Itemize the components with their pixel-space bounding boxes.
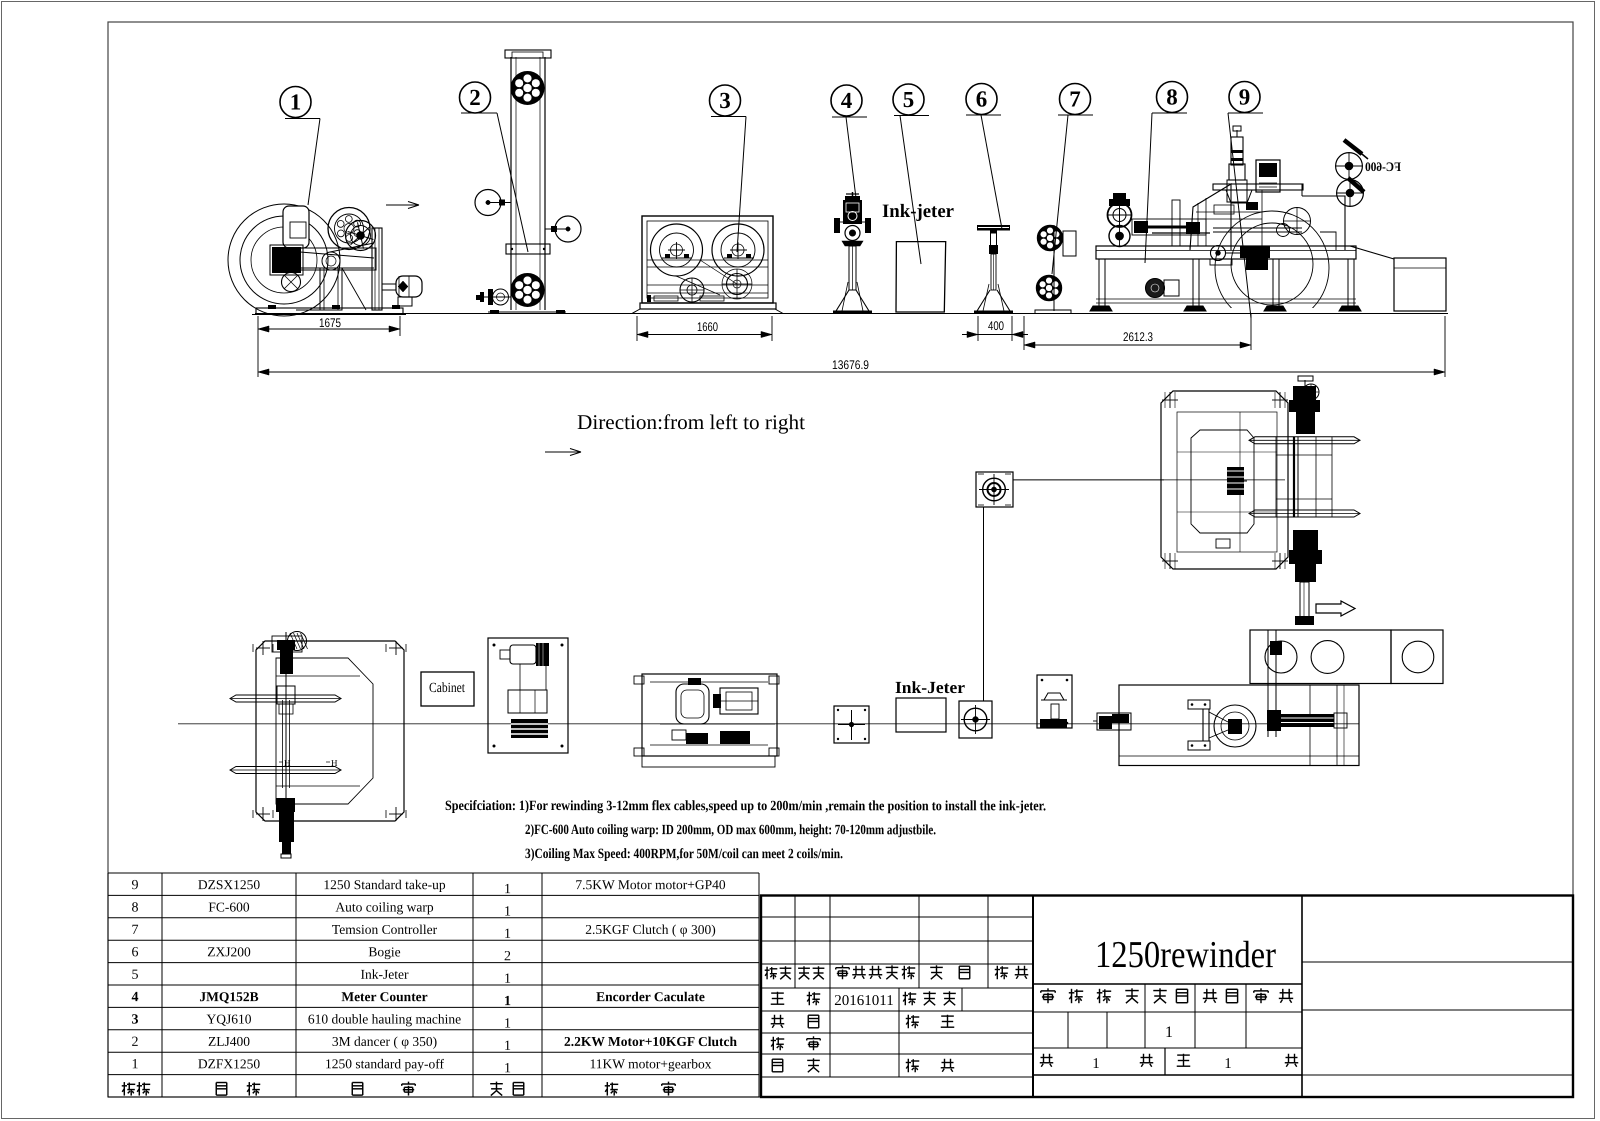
svg-text:1660: 1660 bbox=[697, 320, 718, 334]
leader line 1 bbox=[285, 118, 320, 120]
plan view cabinet bbox=[488, 638, 568, 753]
svg-text:1: 1 bbox=[290, 89, 302, 114]
leader line 5 bbox=[894, 115, 929, 117]
plan view pulley stand lower bbox=[959, 701, 992, 738]
svg-text:Meter Counter: Meter Counter bbox=[341, 989, 427, 1004]
plan view pay-off bbox=[230, 632, 406, 859]
svg-text:2612.3: 2612.3 bbox=[1123, 330, 1153, 344]
svg-text:Bogie: Bogie bbox=[368, 944, 400, 959]
BOM parts table bbox=[108, 873, 759, 1097]
wire down from upper pulley to lower pulley bbox=[983, 507, 985, 701]
svg-text:13676.9: 13676.9 bbox=[832, 358, 869, 372]
svg-text:YQJ610: YQJ610 bbox=[206, 1012, 251, 1027]
svg-text:6: 6 bbox=[131, 945, 138, 960]
svg-text:1: 1 bbox=[1092, 1056, 1100, 1072]
title block header texts bbox=[766, 967, 768, 980]
balloon label 1 bbox=[280, 87, 311, 118]
BOM header row bbox=[123, 1082, 125, 1096]
svg-text:FC-600: FC-600 bbox=[1365, 159, 1401, 174]
svg-text:1: 1 bbox=[1165, 1024, 1173, 1041]
leader line 4 bbox=[832, 116, 867, 118]
machine 6 bogie stand ZXJ200 bbox=[974, 225, 1013, 313]
svg-text:20161011: 20161011 bbox=[834, 993, 893, 1009]
Cabinet label box bbox=[421, 672, 474, 706]
machine 5 ink-jeter box bbox=[896, 242, 946, 312]
svg-text:5: 5 bbox=[903, 87, 915, 112]
balloon label 5 bbox=[893, 84, 924, 115]
svg-text:Ink-jeter: Ink-jeter bbox=[882, 201, 955, 222]
dimension 400 bbox=[977, 316, 979, 341]
svg-text:1: 1 bbox=[504, 994, 511, 1009]
svg-text:3M dancer ( φ 350): 3M dancer ( φ 350) bbox=[332, 1034, 437, 1049]
svg-text:1: 1 bbox=[504, 1017, 511, 1032]
svg-text:3: 3 bbox=[131, 1013, 138, 1028]
svg-text:H: H bbox=[284, 758, 291, 768]
svg-text:2: 2 bbox=[469, 85, 481, 110]
svg-text:4: 4 bbox=[841, 88, 853, 113]
svg-text:Cabinet: Cabinet bbox=[429, 681, 465, 696]
svg-text:8: 8 bbox=[1166, 84, 1178, 109]
balloon label 7 bbox=[1060, 84, 1091, 115]
balloon label 9 bbox=[1229, 82, 1260, 113]
svg-text:Specifciation: 1)For rewinding: Specifciation: 1)For rewinding 3-12mm fl… bbox=[445, 798, 1046, 814]
leader line 2 bbox=[461, 112, 497, 114]
svg-text:1675: 1675 bbox=[319, 316, 341, 330]
svg-text:11KW motor+gearbox: 11KW motor+gearbox bbox=[590, 1056, 712, 1071]
balloon label 8 bbox=[1157, 82, 1188, 113]
balloon label 2 bbox=[460, 82, 491, 113]
svg-text:7: 7 bbox=[131, 923, 138, 938]
machine 4 meter counter JMQ152B bbox=[833, 192, 872, 313]
svg-text:7.5KW Motor motor+GP40: 7.5KW Motor motor+GP40 bbox=[575, 877, 725, 892]
plan view hauling machine bbox=[634, 674, 779, 767]
svg-text:FC-600: FC-600 bbox=[208, 900, 250, 915]
svg-text:7: 7 bbox=[1069, 86, 1081, 111]
svg-text:JMQ152B: JMQ152B bbox=[199, 989, 258, 1004]
machine 2 dancer tower ZLJ400 bbox=[475, 50, 581, 314]
svg-text:Direction:from left to right: Direction:from left to right bbox=[577, 410, 805, 434]
svg-text:2)FC-600 Auto coiling warp: ID: 2)FC-600 Auto coiling warp: ID 200mm, OD… bbox=[525, 822, 936, 838]
page row bbox=[1043, 1054, 1045, 1063]
svg-text:1: 1 bbox=[504, 905, 511, 920]
svg-text:Ink-Jeter: Ink-Jeter bbox=[895, 678, 965, 697]
flow arrow after machine 1 bbox=[386, 204, 419, 206]
svg-text:3)Coiling Max Speed: 400RPM,fo: 3)Coiling Max Speed: 400RPM,for 50M/coil… bbox=[525, 846, 843, 862]
ground line elevation bbox=[255, 313, 1448, 315]
hollow direction arrow plan bbox=[1316, 601, 1355, 616]
leader line 8 bbox=[1152, 112, 1187, 114]
dimension 2612.3 bbox=[1023, 316, 1025, 350]
audit row bbox=[772, 1037, 774, 1051]
svg-text:1250 standard pay-off: 1250 standard pay-off bbox=[325, 1056, 444, 1071]
direction arrow bbox=[545, 451, 581, 453]
machine 7 tension controller bbox=[1035, 225, 1076, 314]
check row bbox=[774, 1015, 776, 1024]
svg-text:400: 400 bbox=[988, 319, 1004, 333]
svg-text:1: 1 bbox=[504, 1039, 511, 1054]
plan view small trolley bbox=[1093, 713, 1131, 730]
plan view ink-jeter box bbox=[896, 698, 946, 732]
svg-text:1: 1 bbox=[504, 1061, 511, 1076]
svg-text:2: 2 bbox=[504, 949, 511, 964]
process row bbox=[772, 1058, 783, 1060]
svg-text:9: 9 bbox=[1239, 84, 1251, 109]
plan view rewinder machine lower bbox=[1119, 685, 1359, 766]
plan centerline wire bbox=[178, 723, 1359, 725]
svg-text:2: 2 bbox=[131, 1035, 138, 1050]
svg-text:3: 3 bbox=[719, 88, 731, 113]
svg-text:1250 Standard take-up: 1250 Standard take-up bbox=[323, 877, 445, 892]
plan view pulley stand upper bbox=[976, 472, 1013, 507]
svg-text:1: 1 bbox=[504, 927, 511, 942]
svg-text:5: 5 bbox=[131, 968, 138, 983]
machine 8 auto coiling warp FC-600 and machine 9 take-up DZSX1250 bbox=[1090, 126, 1446, 325]
svg-text:1: 1 bbox=[504, 972, 511, 987]
svg-text:8: 8 bbox=[131, 901, 138, 916]
svg-text:Auto coiling warp: Auto coiling warp bbox=[335, 900, 433, 915]
svg-text:610 double hauling machine: 610 double hauling machine bbox=[308, 1011, 461, 1026]
leader line 6 bbox=[966, 114, 1001, 116]
svg-text:ZXJ200: ZXJ200 bbox=[207, 944, 251, 959]
svg-text:1250rewinder: 1250rewinder bbox=[1095, 934, 1276, 976]
svg-text:1: 1 bbox=[1224, 1056, 1232, 1072]
svg-text:Encorder Caculate: Encorder Caculate bbox=[596, 989, 705, 1004]
machine 3 double hauling machine YQJ610 bbox=[632, 216, 783, 314]
balloon label 6 bbox=[966, 84, 997, 115]
leader line 7 bbox=[1058, 114, 1093, 116]
svg-text:2.2KW Motor+10KGF Clutch: 2.2KW Motor+10KGF Clutch bbox=[564, 1034, 738, 1049]
plan view meter counter bbox=[834, 706, 869, 743]
dimension 1660 bbox=[636, 316, 638, 341]
plan view outfeed boxes with coils bbox=[1250, 630, 1443, 737]
title block bbox=[761, 896, 1573, 1098]
svg-text:H: H bbox=[331, 758, 338, 768]
svg-text:9: 9 bbox=[131, 878, 138, 893]
svg-text:1: 1 bbox=[131, 1057, 138, 1072]
dimension 1675 bbox=[257, 316, 259, 336]
plan view bogie bbox=[1037, 675, 1072, 728]
svg-text:DZSX1250: DZSX1250 bbox=[198, 877, 261, 892]
leader line 9 bbox=[1228, 112, 1263, 114]
balloon label 3 bbox=[710, 85, 741, 116]
design row bbox=[771, 992, 784, 994]
svg-text:DZFX1250: DZFX1250 bbox=[198, 1056, 261, 1071]
svg-text:6: 6 bbox=[976, 86, 988, 111]
svg-text:ZLJ400: ZLJ400 bbox=[208, 1034, 250, 1049]
plan view take-up machine upper bbox=[1161, 376, 1360, 625]
drawing mark row bbox=[1041, 990, 1055, 992]
svg-text:Ink-Jeter: Ink-Jeter bbox=[361, 967, 409, 982]
balloon label 4 bbox=[831, 85, 862, 116]
dimension 13676.9 overall bbox=[257, 336, 259, 377]
svg-text:4: 4 bbox=[131, 990, 138, 1005]
svg-text:Temsion Controller: Temsion Controller bbox=[332, 922, 438, 937]
machine 1 pay-off DZFX1250 bbox=[228, 204, 422, 316]
svg-text:2.5KGF Clutch ( φ 300): 2.5KGF Clutch ( φ 300) bbox=[585, 922, 715, 937]
wire from upper pulley to take-up plan bbox=[1013, 479, 1164, 481]
svg-text:1: 1 bbox=[504, 882, 511, 897]
leader line 3 bbox=[711, 116, 746, 118]
